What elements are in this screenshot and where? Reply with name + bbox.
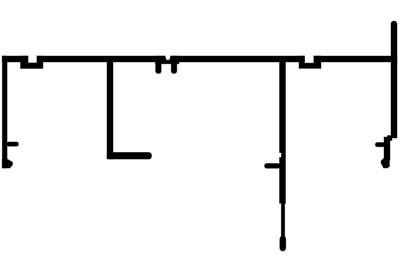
right tick: [375, 143, 385, 147]
tooth 1: [156, 58, 162, 74]
vertical C edge notch (white): [279, 153, 281, 157]
v-notch (white) in rail top: [165, 55, 170, 59]
right vertical upper: [391, 24, 397, 138]
vertical C bottom capsule: [280, 236, 286, 251]
right foot: [381, 159, 390, 169]
left wall tick: [7, 142, 19, 146]
main top rail: [2, 56, 397, 62]
left wall foot: [2, 159, 12, 168]
left clip slot block: [21, 56, 44, 69]
vertical C: [280, 62, 286, 203]
vertical C tick: [265, 164, 281, 169]
left clip slot opening (white gap): [29, 54, 37, 63]
right jog connector: [388, 136, 393, 141]
vertical B: [107, 62, 113, 159]
vertical B arm: [107, 152, 152, 159]
right clip slot block: [299, 56, 321, 68]
vertical C thin stem: [281, 203, 284, 238]
tooth 2: [171, 58, 177, 74]
left vertical wall: [2, 56, 7, 168]
right vertical top cap: [391, 21, 397, 27]
right vertical jog: [384, 137, 390, 160]
right clip slot opening (white gap): [305, 54, 313, 63]
teeth web thickening: [156, 56, 180, 64]
